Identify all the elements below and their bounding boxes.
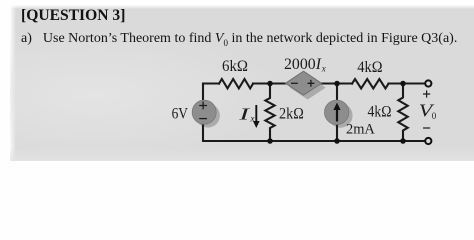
svg-text:x: x xyxy=(321,63,326,73)
svg-text:6kΩ: 6kΩ xyxy=(222,58,248,75)
svg-text:4kΩ: 4kΩ xyxy=(357,59,382,76)
svg-text:2mA: 2mA xyxy=(346,122,375,138)
svg-text:I: I xyxy=(238,105,252,124)
svg-text:0: 0 xyxy=(432,111,437,121)
svg-text:2000I: 2000I xyxy=(284,56,322,73)
svg-text:2kΩ: 2kΩ xyxy=(279,105,304,122)
svg-text:4kΩ: 4kΩ xyxy=(368,104,392,121)
svg-text:x: x xyxy=(250,114,255,124)
svg-text:6V: 6V xyxy=(172,106,189,123)
